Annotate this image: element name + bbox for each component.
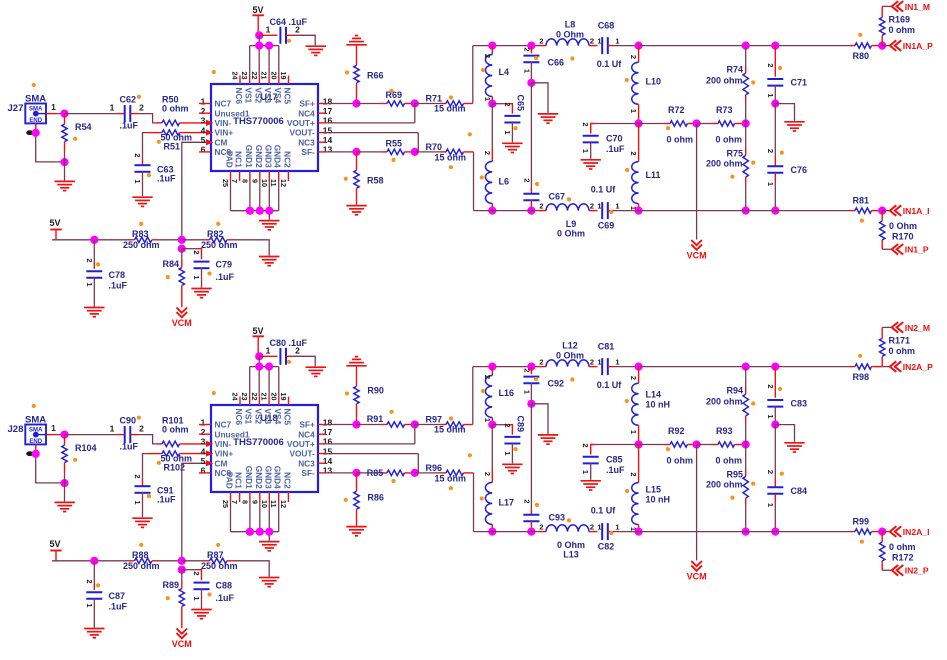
svg-text:2: 2 — [523, 178, 532, 182]
svg-text:15 ohm: 15 ohm — [435, 473, 467, 483]
svg-text:7: 7 — [230, 500, 239, 504]
svg-text:1: 1 — [597, 522, 601, 531]
svg-text:2: 2 — [85, 579, 94, 583]
svg-text:0 ohm: 0 ohm — [889, 542, 916, 552]
svg-text:R89: R89 — [163, 580, 180, 590]
svg-text:VOUT+: VOUT+ — [287, 439, 315, 449]
resistor R88 250 ohm — [123, 550, 182, 571]
capacitor C71 — [766, 46, 807, 104]
svg-text:13: 13 — [323, 145, 333, 155]
svg-text:L17: L17 — [499, 498, 515, 508]
junction — [742, 42, 750, 50]
junction — [488, 528, 496, 536]
svg-text:1: 1 — [51, 423, 56, 433]
svg-text:R104: R104 — [75, 443, 97, 453]
resistor R84 — [163, 249, 185, 308]
svg-text:2: 2 — [483, 151, 492, 155]
svg-text:1: 1 — [503, 130, 512, 134]
svg-text:2: 2 — [483, 375, 492, 379]
junction — [527, 528, 535, 536]
capacitor C70 .1uF — [581, 122, 638, 158]
svg-text:IN2_P: IN2_P — [905, 566, 929, 576]
svg-text:VIN-: VIN- — [215, 118, 232, 128]
capacitor C64 .1uF — [259, 17, 307, 44]
junction — [635, 42, 643, 50]
port IN2_M — [892, 322, 930, 333]
svg-text:12: 12 — [279, 179, 288, 187]
capacitor C82 0.1 Uf — [591, 506, 639, 552]
svg-text:2: 2 — [539, 522, 543, 531]
capacitor C78 — [85, 240, 128, 307]
svg-text:.1uF: .1uF — [216, 272, 235, 282]
resistor R80 — [850, 43, 883, 61]
wire to bottom rail — [473, 473, 475, 532]
junction — [878, 528, 886, 536]
wire C64 to ground — [293, 35, 315, 45]
svg-text:END: END — [29, 118, 42, 124]
svg-text:IN1A_I: IN1A_I — [903, 206, 930, 216]
resistor R91 — [357, 414, 415, 427]
svg-text:CM: CM — [215, 458, 228, 468]
junction — [488, 421, 496, 429]
junction — [255, 363, 263, 371]
svg-text:1: 1 — [51, 102, 56, 112]
svg-text:R98: R98 — [853, 372, 870, 382]
svg-text:20: 20 — [269, 72, 278, 80]
svg-text:NC6: NC6 — [234, 409, 244, 426]
ground — [581, 481, 601, 490]
svg-text:8: 8 — [240, 500, 249, 504]
svg-text:1: 1 — [597, 201, 601, 210]
wire to top rail — [472, 46, 474, 104]
ground — [191, 610, 211, 619]
svg-text:C88: C88 — [216, 581, 233, 591]
svg-text:24: 24 — [231, 72, 240, 80]
wire to VCM — [696, 124, 698, 240]
svg-text:1: 1 — [766, 503, 775, 507]
svg-text:2: 2 — [523, 368, 532, 372]
svg-text:C87: C87 — [109, 591, 126, 601]
resistor R51 50 ohm — [148, 130, 206, 152]
svg-text:.1uF: .1uF — [216, 593, 235, 603]
svg-text:2: 2 — [590, 522, 594, 531]
resistor R83 250 ohm — [123, 229, 182, 250]
capacitor C68 0.1 Uf — [597, 21, 639, 70]
junction — [352, 420, 360, 428]
junction — [411, 99, 419, 107]
svg-text:2: 2 — [629, 472, 638, 476]
svg-text:SF-: SF- — [301, 468, 315, 478]
wire SF- line — [326, 472, 357, 474]
svg-text:6: 6 — [201, 145, 206, 155]
svg-text:6: 6 — [201, 466, 206, 476]
svg-text:C93: C93 — [549, 513, 566, 523]
port IN1A_P — [890, 40, 933, 51]
junction — [771, 528, 779, 536]
junction — [693, 119, 701, 127]
wire to ground — [64, 162, 66, 180]
resistor R55 — [357, 138, 415, 154]
svg-text:2: 2 — [483, 54, 492, 58]
junction — [352, 148, 360, 156]
svg-text:R72: R72 — [668, 105, 685, 115]
inductor L16 — [483, 367, 514, 425]
capacitor C91 — [133, 474, 176, 517]
capacitor C79 — [182, 249, 235, 288]
inductor L9 0 Ohm — [538, 201, 602, 238]
svg-text:C89: C89 — [515, 415, 525, 432]
svg-text:VCM: VCM — [172, 318, 192, 328]
svg-text:4: 4 — [201, 446, 206, 456]
junction — [771, 363, 779, 371]
resistor R95 200 ohm — [706, 445, 748, 532]
svg-text:23: 23 — [240, 393, 249, 401]
svg-text:L12: L12 — [562, 341, 578, 351]
svg-text:VCM: VCM — [172, 639, 192, 649]
svg-text:15 ohm: 15 ohm — [435, 152, 467, 162]
power 5V — [50, 218, 62, 240]
resistor R170 0 Ohm — [880, 211, 918, 250]
svg-text:VS4: VS4 — [273, 409, 283, 425]
junction — [178, 236, 186, 244]
svg-text:R86: R86 — [367, 493, 384, 503]
svg-text:C71: C71 — [791, 78, 808, 88]
wire R82 to ground — [233, 561, 270, 577]
svg-text:1: 1 — [110, 102, 115, 112]
svg-text:1: 1 — [85, 282, 94, 286]
wire VOUT- to node — [326, 454, 418, 473]
junction — [60, 110, 68, 118]
resistor R72 0 ohm — [639, 105, 697, 145]
wire GND pins to ground rail — [231, 181, 279, 220]
capacitor C67 — [523, 178, 566, 210]
junction — [411, 469, 419, 477]
svg-text:R99: R99 — [853, 517, 870, 527]
svg-text:0 ohm: 0 ohm — [162, 103, 189, 113]
svg-text:R82: R82 — [207, 229, 224, 239]
svg-text:NC5: NC5 — [283, 409, 293, 426]
wire to port — [882, 45, 890, 47]
wire to ground — [775, 104, 794, 121]
power 5V — [253, 326, 264, 356]
ground — [346, 527, 366, 536]
svg-text:Unused1: Unused1 — [215, 108, 250, 118]
svg-text:NC1: NC1 — [234, 472, 244, 489]
junction — [527, 207, 535, 215]
svg-text:C68: C68 — [598, 21, 615, 31]
port IN1A_I — [890, 205, 930, 216]
svg-text:R88: R88 — [132, 550, 149, 560]
svg-text:2: 2 — [201, 106, 206, 116]
resistor R70 15 ohm — [415, 142, 474, 163]
inductor L15 — [629, 445, 670, 532]
wire VOUT+ to node — [326, 104, 415, 123]
svg-text:C79: C79 — [216, 260, 233, 270]
svg-text:5V: 5V — [253, 5, 264, 15]
junction — [411, 148, 419, 156]
junction — [352, 99, 360, 107]
svg-text:0 ohm: 0 ohm — [716, 135, 743, 145]
svg-text:C82: C82 — [598, 542, 615, 552]
svg-text:NC2: NC2 — [282, 151, 292, 168]
U17 top pins 19-24 — [231, 72, 289, 85]
svg-text:GND2: GND2 — [254, 466, 264, 489]
wire to port — [882, 326, 892, 328]
wire R51 to C63 — [143, 454, 149, 479]
junction — [635, 119, 643, 127]
svg-text:J28: J28 — [8, 424, 24, 435]
resistor R171 0 ohm — [880, 327, 916, 366]
svg-text:L13: L13 — [563, 550, 579, 560]
svg-text:2: 2 — [483, 472, 492, 476]
junction — [178, 557, 186, 565]
svg-text:2: 2 — [503, 102, 512, 106]
svg-text:L8: L8 — [565, 20, 576, 30]
capacitor C66 — [523, 46, 565, 83]
svg-text:0 ohm: 0 ohm — [667, 135, 694, 145]
junction — [742, 119, 750, 127]
svg-text:R71: R71 — [426, 94, 443, 104]
svg-text:R69: R69 — [386, 90, 403, 100]
junction — [60, 479, 68, 487]
svg-text:2: 2 — [539, 201, 543, 210]
svg-text:C85: C85 — [606, 455, 623, 465]
U18 right pins 13-18 — [318, 417, 332, 475]
svg-text:2: 2 — [581, 122, 590, 126]
svg-text:C69: C69 — [598, 221, 615, 231]
resistor R74 200 ohm — [706, 46, 748, 124]
svg-text:L16: L16 — [499, 388, 515, 398]
svg-text:23: 23 — [240, 72, 249, 80]
svg-text:16: 16 — [323, 116, 333, 126]
svg-text:2: 2 — [766, 384, 775, 388]
svg-text:C67: C67 — [549, 192, 566, 202]
svg-text:5V: 5V — [50, 218, 61, 228]
svg-text:11: 11 — [269, 500, 278, 508]
capacitor C83 — [766, 367, 807, 425]
wire bias rail — [52, 560, 129, 562]
svg-text:200 ohm: 200 ohm — [706, 397, 743, 407]
net VCM — [687, 240, 707, 261]
wire SF+ line — [326, 424, 357, 426]
stars — [32, 354, 864, 601]
svg-text:GND4: GND4 — [273, 145, 283, 168]
junction — [60, 158, 68, 166]
svg-text:2: 2 — [629, 55, 638, 59]
junction — [635, 440, 643, 448]
resistor R104 — [62, 435, 97, 484]
junction — [178, 566, 186, 574]
wire to ground — [775, 425, 794, 442]
U18 bottom pins — [221, 492, 288, 508]
svg-text:24: 24 — [231, 393, 240, 401]
svg-text:1: 1 — [615, 357, 619, 366]
svg-text:0 Ohm: 0 Ohm — [556, 30, 584, 40]
wire top rail — [473, 45, 538, 47]
svg-text:0 Ohm: 0 Ohm — [889, 221, 917, 231]
svg-text:.1uF: .1uF — [109, 281, 128, 291]
svg-text:3: 3 — [201, 437, 206, 447]
svg-text:END: END — [29, 439, 42, 445]
svg-text:VS3: VS3 — [263, 88, 273, 104]
svg-text:21: 21 — [260, 72, 269, 80]
svg-text:R169: R169 — [889, 15, 911, 25]
svg-text:NC5: NC5 — [283, 88, 293, 105]
wire to port — [882, 569, 892, 571]
svg-text:VS4: VS4 — [273, 88, 283, 104]
ground — [581, 160, 601, 169]
inductor L17 — [483, 425, 514, 532]
ground — [346, 206, 366, 215]
resistor R82 250 ohm — [182, 229, 238, 250]
svg-text:R66: R66 — [367, 71, 384, 81]
svg-text:L11: L11 — [646, 170, 661, 180]
inductor L6 — [483, 104, 509, 211]
ground — [132, 518, 152, 527]
svg-text:VCM: VCM — [687, 572, 707, 582]
svg-text:15: 15 — [323, 125, 333, 135]
svg-text:1: 1 — [597, 357, 601, 366]
svg-text:18: 18 — [323, 417, 333, 427]
wire bottom rail right — [639, 531, 850, 533]
resistor R89 — [163, 570, 185, 629]
resistor R81 — [850, 196, 883, 214]
ground — [306, 367, 326, 376]
capacitor C88 — [182, 570, 235, 609]
svg-text:C62: C62 — [120, 95, 137, 105]
junction — [265, 207, 273, 215]
junction — [878, 207, 886, 215]
junction — [488, 100, 496, 108]
svg-text:VS2: VS2 — [253, 88, 263, 104]
svg-text:R85: R85 — [367, 468, 384, 478]
svg-text:1: 1 — [615, 36, 619, 45]
svg-text:NC2: NC2 — [282, 472, 292, 489]
svg-text:1: 1 — [201, 417, 206, 427]
wire to ground — [64, 483, 66, 501]
wire bottom rail right — [639, 210, 850, 212]
port IN1_P — [892, 244, 929, 255]
svg-text:250 ohm: 250 ohm — [201, 561, 238, 571]
svg-text:14: 14 — [323, 456, 333, 466]
svg-text:C70: C70 — [606, 134, 623, 144]
resistor R71 15 ohm — [415, 94, 473, 114]
svg-text:0.1 Uf: 0.1 Uf — [597, 59, 623, 69]
op-amp U18 THS770006 — [211, 405, 318, 492]
svg-text:NC7: NC7 — [215, 99, 232, 109]
svg-text:1: 1 — [766, 93, 775, 97]
svg-text:PAD: PAD — [225, 151, 235, 168]
power 5V — [253, 5, 264, 35]
svg-text:1: 1 — [615, 522, 619, 531]
capacitor C85 .1uF — [581, 443, 638, 479]
svg-text:GND3: GND3 — [263, 466, 273, 489]
svg-text:VOUT-: VOUT- — [289, 449, 315, 459]
resistor R73 0 ohm — [697, 105, 746, 145]
U17 right pins 13-18 — [318, 96, 332, 154]
junction — [90, 236, 98, 244]
wire mid bus — [530, 83, 532, 189]
junction — [255, 352, 263, 360]
stars — [32, 33, 864, 280]
wire C62 to R50 — [138, 435, 156, 444]
svg-text:R84: R84 — [163, 259, 180, 269]
junction — [742, 440, 750, 448]
junction — [488, 363, 496, 371]
svg-text:2: 2 — [133, 474, 142, 478]
wire R82 to ground — [233, 240, 270, 256]
resistor R54 — [62, 114, 92, 163]
svg-text:19: 19 — [279, 72, 288, 80]
svg-text:NC1: NC1 — [234, 151, 244, 168]
junction — [742, 528, 750, 536]
svg-text:2: 2 — [192, 571, 201, 575]
junction — [32, 129, 40, 137]
svg-text:18: 18 — [323, 96, 333, 106]
svg-text:2: 2 — [295, 346, 300, 356]
svg-text:7: 7 — [230, 179, 239, 183]
svg-text:.1uF: .1uF — [157, 495, 176, 505]
svg-text:.1uF: .1uF — [120, 121, 139, 131]
ground — [55, 181, 75, 190]
svg-text:1: 1 — [597, 36, 601, 45]
capacitor C80 .1uF — [259, 338, 307, 365]
ground — [502, 143, 522, 152]
svg-text:1: 1 — [201, 96, 206, 106]
svg-text:C92: C92 — [548, 379, 565, 389]
svg-text:C80 .1uF: C80 .1uF — [270, 338, 308, 348]
net VCM — [172, 629, 192, 650]
ground — [784, 443, 804, 452]
junction — [693, 440, 701, 448]
svg-text:C90: C90 — [120, 416, 137, 426]
svg-text:2: 2 — [539, 357, 543, 366]
svg-text:NC4: NC4 — [298, 108, 315, 118]
junction — [527, 363, 535, 371]
U18 top pins 19-24 — [231, 393, 289, 406]
wire to port — [882, 248, 892, 250]
svg-text:C65: C65 — [515, 94, 525, 111]
ground — [306, 46, 326, 55]
capacitor C93 — [523, 499, 566, 531]
ground — [84, 629, 104, 638]
svg-text:0.1 Uf: 0.1 Uf — [597, 380, 623, 390]
inductor L13 0 Ohm — [538, 522, 602, 559]
svg-text:200 ohm: 200 ohm — [706, 76, 743, 86]
svg-text:0 ohm: 0 ohm — [889, 346, 916, 356]
svg-text:1: 1 — [766, 414, 775, 418]
ground — [55, 502, 75, 511]
capacitor C76 — [766, 104, 807, 211]
svg-text:GND3: GND3 — [263, 145, 273, 168]
svg-text:1: 1 — [192, 596, 201, 600]
port IN1_M — [892, 1, 930, 12]
wire GND pins to ground rail — [231, 502, 279, 541]
svg-text:IN2_M: IN2_M — [905, 323, 930, 333]
svg-text:10 nH: 10 nH — [646, 400, 671, 410]
svg-text:2: 2 — [295, 25, 300, 35]
svg-text:C66: C66 — [548, 58, 565, 68]
junction — [742, 207, 750, 215]
resistor R93 0 ohm — [697, 426, 746, 466]
inductor L11 — [629, 124, 660, 211]
connector J27 (SMA) — [8, 94, 47, 136]
capacitor C92 — [523, 367, 565, 404]
svg-text:VS2: VS2 — [253, 409, 263, 425]
svg-text:C78: C78 — [109, 270, 126, 280]
inductor L12 0 Ohm — [538, 341, 602, 367]
svg-text:IN1A_P: IN1A_P — [903, 41, 933, 51]
